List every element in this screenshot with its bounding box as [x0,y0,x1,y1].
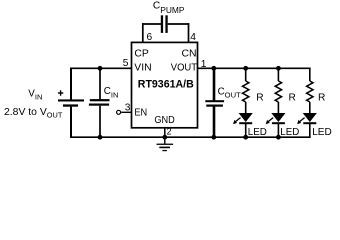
wire R1 to LED1 [245,102,247,114]
LED2 emission arrow [266,118,274,125]
GND pin 2 stub wire [164,128,166,137]
capacitor C_PUMP plates [161,15,168,33]
wire top-left rail (battery+ / CIN / VIN pin 5 net) [70,67,131,69]
EN pin 3 stub wire [121,111,131,113]
junction dot LED2 bottom [276,135,281,140]
LED3 emission arrow [297,118,305,125]
battery V_IN positive lead wire [70,68,72,101]
svg-text:3: 3 [125,103,131,114]
capacitor C_IN lead bottom [99,106,101,138]
LED1 emission arrow [233,118,241,125]
pin 4 stub wire CN [188,23,190,42]
ground symbol stem [164,137,166,144]
wire top-right rail VOUT net [213,67,311,69]
svg-text:GND: GND [154,115,174,126]
resistor R3 zigzag [307,81,313,102]
LED1 cathode wire [245,124,247,138]
svg-text:LED: LED [312,127,332,138]
junction dot rail R2 [276,66,281,71]
svg-text:VIN: VIN [134,63,151,74]
svg-text:R: R [318,92,325,103]
wire R3 to LED3 [309,102,311,114]
LED1 cathode bar [239,122,252,124]
svg-text:CPUMP: CPUMP [153,1,185,15]
svg-text:EN: EN [134,108,147,119]
junction dot CIN bottom [98,135,103,140]
capacitor C_OUT lead top [213,68,216,101]
svg-text:1: 1 [201,59,207,70]
capacitor C_OUT plates [205,100,224,107]
ground symbol bars [157,144,174,152]
resistor R1 branch top wire [245,68,247,82]
EN input terminal circle [117,110,121,114]
capacitor C_IN lead top [99,68,101,99]
svg-text:R: R [256,92,263,103]
resistor R2 branch top wire [277,68,279,82]
svg-text:CN: CN [182,49,197,60]
svg-text:COUT: COUT [218,87,241,100]
svg-text:5: 5 [123,58,129,69]
battery V_IN negative lead wire [70,107,72,138]
svg-text:LED: LED [280,127,299,138]
junction dot LED1 bottom [243,135,248,140]
LED3 diode triangle [303,113,317,122]
svg-text:R: R [289,92,296,103]
junction dot CIN top [98,66,103,71]
svg-text:CP: CP [134,49,149,60]
svg-text:2: 2 [167,126,172,136]
LED3 cathode bar [303,122,316,124]
IC U1 RT9361A/B box [132,42,198,127]
wire R2 to LED2 [277,102,279,114]
capacitor C_IN plates [89,99,110,106]
svg-text:6: 6 [147,32,153,43]
svg-text:LED: LED [248,127,267,138]
LED3 cathode wire [309,124,311,138]
wire CPUMP left segment [142,23,161,25]
pin 6 stub wire CP [142,23,144,42]
VOUT pin 1 stub wire [198,67,215,69]
resistor R3 branch top wire [309,68,311,82]
svg-text:VIN: VIN [28,89,42,102]
battery polarity + label [58,90,63,95]
junction dot rail R1 [243,66,248,71]
junction dot COUT bottom [211,135,216,140]
battery V_IN cell symbol [58,99,84,106]
LED2 diode triangle [271,113,285,122]
wire CPUMP right segment [168,23,190,25]
junction dot GND pin [162,135,167,140]
LED2 cathode wire [277,124,279,138]
LED1 diode triangle [239,113,253,122]
wire bottom rail ground net [70,136,310,138]
capacitor C_OUT lead bottom [213,107,216,139]
svg-text:2.8V to VOUT: 2.8V to VOUT [4,107,63,120]
svg-text:RT9361A/B: RT9361A/B [138,79,194,91]
LED2 cathode bar [272,122,285,124]
junction dot VOUT/COUT [211,66,216,71]
resistor R1 zigzag [243,81,249,102]
svg-text:VOUT: VOUT [171,63,198,74]
svg-text:4: 4 [190,32,196,43]
resistor R2 zigzag [275,81,281,102]
svg-text:CIN: CIN [104,86,119,100]
